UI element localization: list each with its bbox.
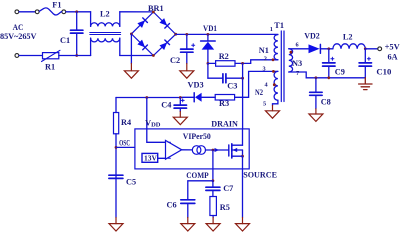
node VD1 top — [207, 33, 210, 36]
svg-text:5: 5 — [263, 100, 266, 107]
box 13V — [142, 153, 158, 162]
svg-text:6: 6 — [296, 41, 299, 48]
node C4 tap — [179, 96, 182, 99]
svg-text:VD3: VD3 — [188, 81, 204, 90]
wire top rail to bridge — [120, 11, 154, 13]
ground SOURCE — [236, 218, 250, 232]
capacitor C1 — [76, 12, 78, 30]
diode VD2 — [309, 44, 320, 53]
SOURCE pin wire — [242, 156, 244, 217]
svg-text:R1: R1 — [45, 62, 55, 71]
DC bus wire — [176, 33, 278, 35]
svg-text:C3: C3 — [227, 82, 237, 91]
node BR1 top — [152, 11, 155, 14]
capacitor C9 — [328, 49, 330, 63]
svg-text:VD2: VD2 — [304, 32, 320, 41]
wire bottom rail to bridge — [120, 55, 154, 57]
transformer T1 aux winding N2 — [274, 71, 278, 100]
node OSC tap — [115, 146, 118, 149]
node C9 top — [327, 47, 330, 50]
svg-text:C2: C2 — [170, 56, 180, 65]
resistor R5 — [210, 197, 217, 216]
capacitor C5 — [109, 174, 123, 176]
svg-text:COMP: COMP — [186, 171, 209, 180]
current source — [182, 149, 193, 151]
node polarity N3 — [290, 51, 293, 54]
VIPer50 block U1 — [135, 129, 249, 169]
wire jog to pin 2 — [251, 60, 278, 64]
svg-text:C1: C1 — [60, 36, 70, 45]
svg-text:2: 2 — [264, 56, 267, 63]
arrow gate — [215, 148, 220, 152]
ground earth C10 — [359, 78, 372, 90]
svg-text:SOURCE: SOURCE — [243, 171, 277, 180]
terminal top-left AC — [15, 10, 19, 14]
node BR1 left — [130, 33, 133, 36]
svg-text:N1: N1 — [259, 46, 269, 55]
node N2 pin4 — [273, 83, 276, 86]
inductor L2 output — [333, 44, 365, 49]
node comp/gate — [212, 149, 215, 152]
node clamp right — [241, 62, 244, 65]
node BR1 bottom — [152, 54, 155, 57]
resistor R3 — [215, 95, 234, 101]
op-amp — [166, 140, 182, 159]
ground C5 — [109, 218, 123, 232]
varistor R1 — [43, 53, 59, 59]
VDD pin wire — [147, 98, 166, 143]
wire drain line — [242, 63, 244, 129]
node C9 bottom — [327, 76, 330, 79]
node C10 top — [364, 47, 367, 50]
fuse F1 — [35, 10, 39, 14]
svg-text:C7: C7 — [223, 184, 233, 193]
ground C4 — [173, 112, 187, 125]
node C8 tap — [315, 76, 318, 79]
wire OSC stub — [116, 146, 135, 148]
capacitor C4 — [179, 98, 181, 105]
capacitor C7 — [212, 181, 214, 187]
mosfet Q — [228, 145, 230, 156]
wire pin7 — [289, 72, 366, 78]
wire to +5V terminal — [365, 48, 377, 50]
ground R5 — [206, 218, 220, 232]
svg-text:BR1: BR1 — [148, 4, 164, 13]
node polarity N2 pin3 — [272, 70, 275, 73]
BR1 diode top-right — [159, 18, 169, 28]
svg-text:+5V: +5V — [385, 42, 400, 51]
svg-text:C9: C9 — [335, 67, 345, 76]
bridge BR1 frame — [131, 12, 175, 56]
transformer T1 core — [280, 31, 282, 102]
BR1 diode top-left — [137, 18, 147, 28]
svg-text:C5: C5 — [126, 178, 136, 187]
wire VDD rail — [116, 97, 180, 99]
node BR1 right — [174, 33, 177, 36]
svg-text:DRAIN: DRAIN — [211, 120, 238, 129]
wire pin3 — [235, 71, 278, 97]
wire to C6 — [188, 181, 213, 200]
svg-text:R4: R4 — [121, 118, 131, 127]
svg-text:L2: L2 — [343, 32, 353, 41]
resistor R4 — [115, 98, 117, 113]
svg-text:OSC: OSC — [119, 138, 130, 147]
node C2 tap — [185, 33, 188, 36]
svg-text:VIPer50: VIPer50 — [183, 132, 211, 141]
ground BR1 — [124, 64, 138, 79]
svg-text:3: 3 — [263, 66, 266, 73]
terminal +5V — [378, 47, 382, 51]
svg-text:L2: L2 — [100, 9, 110, 18]
svg-text:13V: 13V — [144, 153, 158, 162]
node clamp left — [207, 62, 210, 65]
svg-text:VDD: VDD — [145, 119, 161, 129]
wire — [59, 55, 91, 57]
transformer T1 primary N1 — [274, 35, 278, 60]
svg-text:VD1: VD1 — [203, 24, 217, 33]
node C1 top — [75, 10, 78, 13]
node C3 right — [241, 77, 244, 80]
svg-text:85V~265V: 85V~265V — [0, 32, 37, 41]
capacitor C8 — [315, 78, 317, 92]
node comp branch — [212, 179, 215, 182]
svg-text:F1: F1 — [52, 0, 61, 9]
svg-text:N2: N2 — [255, 88, 263, 97]
svg-text:C8: C8 — [321, 98, 331, 107]
wire — [66, 11, 91, 13]
COMP pin wire — [212, 150, 214, 181]
transformer secondary N3 — [289, 49, 293, 72]
wire pin6 — [289, 48, 309, 50]
node source — [241, 155, 244, 158]
capacitor C10 — [364, 49, 366, 63]
node polarity N1 — [272, 58, 275, 61]
svg-text:AC: AC — [13, 23, 24, 32]
ground C6 — [181, 218, 195, 232]
wire — [19, 11, 35, 13]
diode VD3 — [195, 93, 202, 102]
terminal bottom-left AC — [15, 54, 19, 58]
capacitor C2 — [186, 34, 188, 48]
BR1 diode bottom-right — [159, 40, 169, 50]
capacitor C6 — [181, 199, 195, 201]
node VDD tap — [145, 96, 148, 99]
resistor R2 — [208, 62, 216, 64]
svg-text:R3: R3 — [219, 99, 229, 108]
svg-text:R5: R5 — [220, 203, 230, 212]
svg-text:1: 1 — [270, 26, 273, 33]
svg-text:6A: 6A — [388, 53, 398, 62]
svg-text:R2: R2 — [219, 52, 229, 61]
ground T1 pin5 — [266, 106, 280, 119]
wire BR1 left vertex down — [130, 34, 132, 64]
svg-text:C6: C6 — [167, 200, 177, 209]
ground C8 — [309, 109, 323, 122]
BR1 diode bottom-left — [137, 40, 147, 50]
capacitor C3 — [207, 63, 209, 78]
svg-text:T1: T1 — [274, 21, 284, 30]
wire — [19, 55, 42, 57]
svg-text:C10: C10 — [376, 67, 391, 76]
diode VD1 — [207, 34, 209, 41]
svg-text:4: 4 — [265, 82, 269, 89]
ground C2 — [180, 64, 194, 79]
svg-text:C4: C4 — [161, 101, 171, 110]
wire pin5 down — [273, 100, 278, 105]
svg-text:7: 7 — [296, 70, 299, 77]
choke L2 — [90, 12, 92, 27]
svg-text:N3: N3 — [292, 59, 302, 68]
node C1 bottom — [75, 54, 78, 57]
